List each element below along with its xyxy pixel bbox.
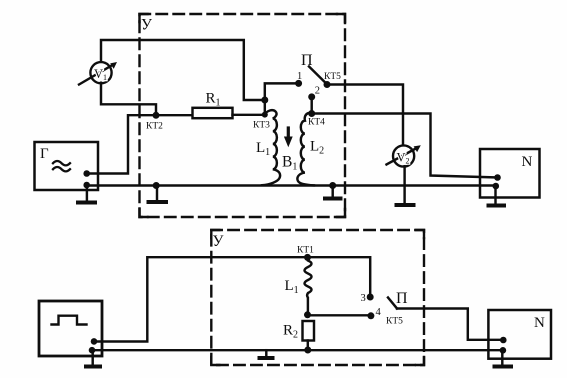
inductor L2 (top unit secondary) xyxy=(297,113,314,186)
dashed enclosure box U (bottom unit) xyxy=(211,230,424,365)
wire V1 bottom to KT2 xyxy=(101,83,156,116)
svg-text:КТ2: КТ2 xyxy=(146,122,163,132)
generator terminal upper xyxy=(83,170,90,177)
N terminal lower xyxy=(493,183,500,190)
N terminal lower (bottom) xyxy=(500,347,507,354)
pulse generator terminal lower xyxy=(89,347,96,354)
ground under pulse generator xyxy=(91,352,93,365)
wire KT4 to N (upper) xyxy=(312,114,498,178)
wire G upper to KT2 xyxy=(87,115,156,173)
svg-text:КТ4: КТ4 xyxy=(308,118,325,128)
svg-text:Г: Г xyxy=(40,146,49,162)
switch blade P (bottom unit) xyxy=(388,298,397,309)
node 2 xyxy=(308,93,315,100)
pulse generator box xyxy=(39,301,102,356)
wire KT2 to R1 xyxy=(156,114,193,116)
svg-text:КТ1: КТ1 xyxy=(297,246,314,256)
wire KT3 junction vertical xyxy=(264,100,266,115)
voltmeter V2 xyxy=(387,145,421,166)
svg-text:L1: L1 xyxy=(285,278,299,296)
svg-text:П: П xyxy=(396,290,408,307)
wire pulse gen to KT1 and node 3 xyxy=(94,257,370,341)
svg-text:КТ5: КТ5 xyxy=(324,72,341,82)
pulse symbol xyxy=(52,316,87,325)
dashed enclosure box U (top unit) xyxy=(140,14,346,217)
wire V1 top (from V1 up and across to KT3 junction) xyxy=(101,40,265,100)
ground under N (top) xyxy=(494,186,496,204)
node R2 bottom xyxy=(304,347,311,354)
node L1/R2 junction xyxy=(304,311,311,318)
svg-text:3: 3 xyxy=(361,293,366,304)
bottom bus (top circuit) xyxy=(87,184,496,186)
approx symbol xyxy=(53,161,70,171)
svg-text:1: 1 xyxy=(297,71,302,82)
svg-text:В1: В1 xyxy=(282,154,297,173)
inductor L1 (bottom unit) xyxy=(305,257,312,314)
svg-text:У: У xyxy=(213,233,224,250)
bottom bus (bottom circuit) xyxy=(92,349,503,351)
contact KT5 xyxy=(324,81,331,88)
svg-text:КТ3: КТ3 xyxy=(253,121,270,131)
wire KT5 to V2 xyxy=(327,85,403,146)
inductor L1 (top unit primary) xyxy=(262,110,280,185)
N box (top circuit) xyxy=(480,149,540,198)
node 1 xyxy=(295,80,302,87)
pulse generator terminal upper xyxy=(91,338,98,345)
svg-text:N: N xyxy=(534,315,545,331)
node 3 xyxy=(367,294,374,301)
svg-text:КТ5: КТ5 xyxy=(386,317,403,327)
N terminal upper xyxy=(494,174,501,181)
wire blade to N box (bottom) xyxy=(397,309,503,340)
switch blade P (top unit) xyxy=(309,67,327,85)
node junction above KT3 xyxy=(261,97,268,104)
generator G box xyxy=(35,142,99,190)
voltmeter V1 xyxy=(79,62,117,85)
svg-text:L2: L2 xyxy=(310,139,324,157)
ground stub on bus xyxy=(265,350,267,356)
node KT3 xyxy=(262,112,268,118)
N terminal upper (bottom) xyxy=(500,337,507,344)
N box (bottom circuit) xyxy=(488,310,551,359)
wire R2 to bus xyxy=(307,341,309,351)
node 4 xyxy=(367,312,374,319)
wire junction to node 4 xyxy=(308,314,371,316)
node KT2 xyxy=(153,112,160,119)
svg-text:N: N xyxy=(522,154,533,170)
transformer core arrow B1 xyxy=(287,128,290,138)
svg-text:У: У xyxy=(141,17,152,34)
ground under V2 xyxy=(403,166,405,204)
wire R1 to KT3 xyxy=(233,114,265,116)
generator terminal lower xyxy=(83,182,90,189)
svg-text:П: П xyxy=(301,52,313,69)
svg-text:4: 4 xyxy=(376,307,382,318)
node KT4 xyxy=(308,110,315,117)
ground node right inside box xyxy=(329,182,336,189)
ground under N (bottom) xyxy=(501,350,503,365)
resistor R1 xyxy=(193,108,233,118)
ground under G xyxy=(86,188,88,201)
ground node left inside box xyxy=(153,182,160,189)
svg-text:L1: L1 xyxy=(256,140,270,158)
svg-text:R1: R1 xyxy=(206,91,221,109)
resistor R2 xyxy=(303,321,315,341)
svg-text:R2: R2 xyxy=(283,323,298,341)
svg-text:2: 2 xyxy=(315,86,320,97)
wire node1 feed (junction up and right to node 1) xyxy=(265,83,299,100)
wire node2 to KT4 xyxy=(310,97,312,114)
node KT1 xyxy=(304,254,311,261)
